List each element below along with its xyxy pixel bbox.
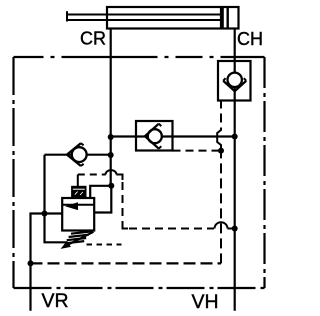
pressure valve pilot cap (hatched) bbox=[72, 187, 86, 197]
pilot P1 tail to CH line bbox=[228, 228, 235, 230]
pressure valve internal arrowhead bbox=[65, 202, 78, 210]
enclosure border (dash-dot frame) bbox=[14, 57, 265, 288]
check valve V3 internal line bbox=[234, 61, 236, 100]
pressure valve internal passage bbox=[62, 204, 94, 206]
drain dashed line bbox=[87, 244, 122, 246]
pilot cap stub bbox=[77, 175, 79, 187]
wire valve inlet bbox=[45, 212, 63, 214]
wire CH upper bbox=[234, 29, 236, 63]
pressure valve PV1 body bbox=[62, 198, 94, 231]
spring bbox=[71, 231, 92, 233]
junction node: CH x middle line bbox=[232, 134, 238, 140]
cylinder head line bbox=[226, 7, 228, 29]
svg-text:VR: VR bbox=[42, 290, 69, 312]
pilot P1 bottom dashed run bbox=[129, 228, 214, 230]
junction node A: CR x pilot bbox=[108, 183, 114, 189]
junction node: CR x left CV line bbox=[108, 152, 114, 158]
svg-text:CR: CR bbox=[80, 29, 106, 49]
pilot P1 riser dashed bbox=[122, 182, 124, 224]
wire CR vertical bbox=[110, 29, 112, 186]
main bottom dashed line VR-VH bbox=[31, 262, 222, 264]
wire CH lower bbox=[234, 100, 236, 311]
cylinder rod bbox=[67, 11, 220, 21]
junction node: valve inlet branch bbox=[42, 211, 48, 217]
check valve V2 poppet (middle) bbox=[148, 129, 162, 143]
dashed branch from V2 box bbox=[173, 150, 222, 152]
crossover hop over CR line bbox=[106, 170, 117, 174]
cylinder barrel bbox=[107, 7, 239, 29]
adjustment arrow bbox=[67, 232, 94, 245]
svg-text:CH: CH bbox=[237, 29, 263, 49]
check valve V1 seat bbox=[67, 143, 81, 166]
junction node C: CH x pilot bbox=[232, 226, 238, 232]
check valve V3 poppet bbox=[228, 73, 242, 87]
cylinder piston bbox=[220, 7, 224, 29]
pilot P1 corner bbox=[116, 175, 122, 181]
crossover hop over dashed riser bbox=[215, 222, 228, 228]
check valve V3 box (CH side) bbox=[218, 61, 251, 101]
junction node: VR x main dashed bbox=[28, 260, 34, 266]
pilot line P1 dashed (cap to riser) bbox=[78, 174, 106, 176]
wire left loop down to drain bbox=[45, 155, 67, 243]
check valve V2 box bbox=[136, 121, 173, 151]
wire middle check valve line bbox=[111, 135, 235, 137]
wire left check valve line bbox=[45, 154, 111, 156]
wire VR port bbox=[31, 214, 45, 311]
check valve V1 poppet (left, unboxed) bbox=[72, 147, 87, 162]
junction node: dashed branch x riser bbox=[218, 148, 224, 154]
junction node: CR x middle line bbox=[108, 134, 114, 140]
wire CR to valve right port bbox=[94, 186, 111, 213]
check valve V3 seat bbox=[223, 81, 246, 91]
svg-text:VH: VH bbox=[192, 291, 219, 313]
dashed riser with jog bbox=[220, 145, 222, 264]
pilot P1 lower corner bbox=[123, 224, 129, 229]
pilot wire P2 (valve top to node A) bbox=[90, 186, 111, 198]
check valve V2 seat bbox=[145, 124, 159, 149]
